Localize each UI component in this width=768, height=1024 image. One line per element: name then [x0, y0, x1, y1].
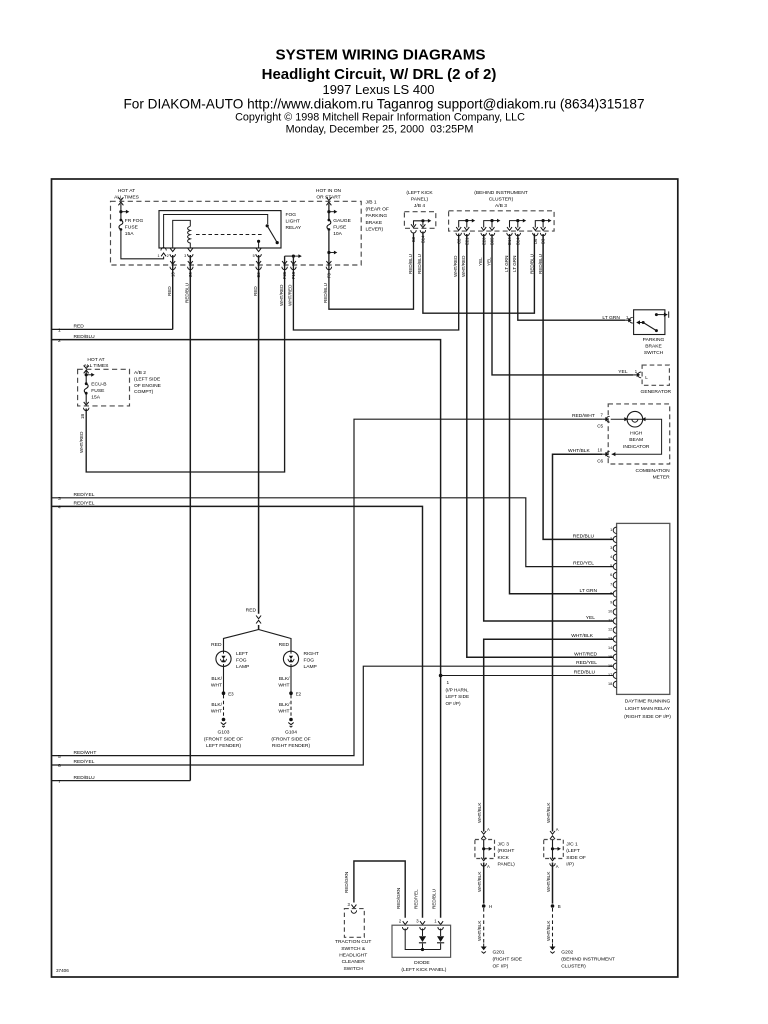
- svg-text:C6: C6: [597, 458, 603, 463]
- svg-text:BRAKE: BRAKE: [366, 220, 383, 226]
- svg-text:TRACTION CUT: TRACTION CUT: [335, 939, 371, 945]
- svg-text:(I/P HARN,: (I/P HARN,: [446, 687, 469, 692]
- connector below J/C1: [550, 858, 555, 867]
- svg-text:15: 15: [608, 655, 612, 659]
- label ECU-B FUSE 15A: [91, 382, 106, 401]
- label RIGHT FOG LAMP: [304, 651, 319, 670]
- svg-text:14: 14: [608, 646, 612, 650]
- wire 13 RED: relay pin2 down through J/B1: [172, 255, 174, 329]
- label HOT AT ALL TIMES: [84, 357, 109, 369]
- svg-text:YEL: YEL: [478, 257, 483, 266]
- relay pin 4 connector: [256, 248, 261, 257]
- svg-text:WHT: WHT: [211, 683, 222, 689]
- svg-text:17: 17: [608, 673, 612, 677]
- svg-text:1: 1: [434, 919, 437, 924]
- fuse ECU-B 15A symbol: [84, 382, 88, 394]
- wire pair3-right LT GRN down to parking brake switch: [518, 234, 626, 320]
- svg-text:1: 1: [610, 528, 612, 532]
- svg-text:SWITCH: SWITCH: [344, 966, 364, 972]
- ground G103: [221, 718, 226, 727]
- svg-text:WHT/BLK: WHT/BLK: [477, 920, 482, 941]
- connector at J/B1 bottom edge (F35): [282, 261, 287, 270]
- connector into generator: [633, 374, 637, 376]
- DRL relay pin 17: [613, 672, 616, 678]
- svg-text:RED: RED: [246, 608, 257, 614]
- svg-text:J/C 1: J/C 1: [566, 842, 578, 848]
- inline connector on RED wire: [256, 616, 261, 624]
- pair1 connectors: [456, 227, 461, 236]
- svg-text:OF I/P): OF I/P): [493, 963, 509, 969]
- svg-text:RED: RED: [253, 286, 258, 296]
- wire pair2-left YEL down to DRL pin 11: [484, 234, 614, 621]
- label DIODE (LEFT KICK PANEL): [401, 960, 446, 973]
- svg-text:FOG: FOG: [236, 657, 247, 663]
- label (BEHIND INSTRUMENT CLUSTER) A/B 3: [474, 190, 528, 209]
- relay switch arm: [267, 226, 277, 243]
- svg-text:9: 9: [610, 601, 612, 605]
- label (I/P HARN, LEFT SIDE OF I/P): [446, 680, 470, 706]
- wire WHT/BLK below J/C3: [483, 863, 485, 904]
- svg-text:(LEFT KICK: (LEFT KICK: [406, 190, 433, 196]
- svg-text:RIGHT FENDER): RIGHT FENDER): [272, 743, 311, 749]
- svg-text:RED/YEL: RED/YEL: [576, 660, 597, 666]
- svg-text:PARKING: PARKING: [366, 213, 388, 219]
- svg-text:(FRONT SIDE OF: (FRONT SIDE OF: [204, 736, 243, 742]
- svg-text:WHT: WHT: [211, 709, 222, 715]
- svg-text:1: 1: [447, 680, 450, 685]
- dashed WHT/BLK to G201: [483, 908, 485, 944]
- svg-text:4: 4: [610, 555, 612, 559]
- svg-text:Monday, December 25, 2000 03:: Monday, December 25, 2000 03:25PM: [286, 124, 474, 136]
- svg-text:RED/BLU: RED/BLU: [538, 254, 543, 274]
- svg-text:8: 8: [610, 591, 612, 595]
- label HOT IN ON OR START: [316, 188, 342, 200]
- svg-text:2: 2: [610, 537, 612, 541]
- wire B2 RED: relay pin4 (contact) down to fog lamps: [258, 255, 260, 630]
- svg-text:RED: RED: [74, 324, 85, 330]
- svg-text:RED: RED: [167, 286, 172, 296]
- svg-text:7: 7: [601, 412, 604, 417]
- DRL relay pin 13: [613, 636, 616, 642]
- svg-text:2: 2: [399, 919, 402, 924]
- svg-text:(REAR OF: (REAR OF: [366, 206, 389, 212]
- svg-text:7: 7: [58, 779, 61, 785]
- svg-text:FUSE: FUSE: [333, 225, 347, 231]
- dashed BLK/WHT to ground right: [290, 695, 292, 717]
- svg-text:F3: F3: [327, 272, 332, 278]
- svg-text:RED/GRN: RED/GRN: [344, 872, 349, 893]
- svg-text:5: 5: [253, 254, 255, 258]
- wire pair3-left LT GRN down to DRL pin 8: [510, 234, 614, 594]
- svg-text:LT GRN: LT GRN: [580, 588, 598, 594]
- svg-text:RED/BLU: RED/BLU: [74, 334, 96, 340]
- row 6 RED/YEL to DRL pin 16: [52, 666, 614, 765]
- svg-text:LAMP: LAMP: [236, 664, 249, 670]
- relay internal: pin1 to switch common: [164, 215, 268, 249]
- row 1 RED: [52, 328, 173, 330]
- DRL relay pin 11: [613, 618, 616, 624]
- svg-text:WHT/BLK: WHT/BLK: [571, 633, 593, 639]
- pair4 connectors: [533, 227, 538, 236]
- connector below J/C3: [481, 858, 486, 867]
- svg-text:FOG: FOG: [286, 212, 297, 218]
- row 4 RED/YEL to diode: [52, 506, 423, 917]
- connector C5: [602, 418, 605, 420]
- svg-text:CLEANER: CLEANER: [342, 959, 366, 965]
- svg-text:10: 10: [598, 447, 603, 452]
- pair2 connectors: [481, 227, 486, 236]
- DRL relay pin 3: [613, 545, 616, 551]
- svg-text:RED/YEL: RED/YEL: [413, 889, 418, 909]
- label HOT AT ALL TIMES (left): [114, 188, 139, 200]
- dashed WHT/BLK to G202: [552, 908, 554, 944]
- svg-text:BLK/: BLK/: [279, 702, 290, 708]
- fuse GAUGE 10A symbol: [327, 219, 331, 231]
- svg-text:LT GRN: LT GRN: [504, 256, 509, 272]
- svg-text:(BEHIND INSTRUMENT: (BEHIND INSTRUMENT: [474, 190, 528, 196]
- label (LEFT KICK PANEL) J/B 4: [406, 190, 433, 209]
- wire F35 WHT/RED: down to ECU-B fuse loop: [86, 256, 284, 472]
- label FR FOG FUSE 15A: [125, 218, 144, 237]
- svg-text:F15: F15: [291, 271, 296, 279]
- DRL relay pin 2: [613, 536, 616, 542]
- svg-text:G103: G103: [218, 729, 230, 735]
- DRL relay pin 18: [613, 681, 616, 687]
- svg-text:WHT/BLK: WHT/BLK: [477, 802, 482, 823]
- J/B3 pair3 splice bar: [510, 221, 518, 228]
- diode symbol right: [437, 936, 444, 942]
- TRACTION CUT SWITCH dashed box: [344, 909, 364, 938]
- svg-text:RED: RED: [279, 642, 290, 648]
- svg-text:RED/BLU: RED/BLU: [530, 254, 535, 274]
- svg-text:RED/BLU: RED/BLU: [573, 533, 595, 539]
- relay actuation dashed line: [196, 234, 262, 236]
- J/B3 pair4 splice bar: [535, 221, 543, 228]
- svg-text:3: 3: [348, 902, 351, 907]
- pair3 connectors: [507, 227, 512, 236]
- svg-text:COMPT): COMPT): [134, 389, 154, 395]
- row 2 RED/BLU: [52, 340, 441, 918]
- svg-text:26: 26: [188, 272, 193, 277]
- svg-text:GENERATOR: GENERATOR: [641, 389, 672, 395]
- svg-text:WHT/RED: WHT/RED: [288, 284, 293, 306]
- svg-text:RED/BLU: RED/BLU: [323, 283, 328, 303]
- svg-text:12: 12: [608, 628, 612, 632]
- svg-text:LT GRN: LT GRN: [602, 315, 620, 321]
- svg-text:BRAKE: BRAKE: [645, 344, 662, 350]
- ECU-B fuse wire inside A/B2: [85, 371, 87, 404]
- svg-text:RED/BLU: RED/BLU: [408, 254, 413, 274]
- DRL relay pin 16: [613, 663, 616, 669]
- svg-text:DIODE: DIODE: [414, 960, 430, 966]
- svg-text:RED/YEL: RED/YEL: [74, 492, 95, 498]
- svg-text:ALL TIMES: ALL TIMES: [114, 194, 139, 200]
- wire row2 branch to DRL pin 17: [441, 675, 614, 677]
- svg-text:FUSE: FUSE: [91, 388, 105, 394]
- svg-text:(LEFT: (LEFT: [566, 848, 580, 854]
- splice E3: [222, 691, 226, 695]
- svg-text:CLUSTER): CLUSTER): [489, 196, 514, 202]
- label A/B 2 (LEFT SIDE OF ENGINE COMPT): [134, 370, 162, 395]
- svg-text:3: 3: [610, 546, 612, 550]
- DRL relay pin 8: [613, 591, 616, 597]
- svg-text:H: H: [489, 904, 492, 909]
- splice dot I/P HARN on row2 wire: [439, 674, 443, 678]
- svg-text:J/B 1: J/B 1: [366, 200, 377, 206]
- svg-text:WHT/RED: WHT/RED: [461, 255, 466, 277]
- svg-text:B8: B8: [411, 236, 416, 242]
- svg-text:WHT: WHT: [278, 709, 289, 715]
- svg-text:PANEL): PANEL): [411, 196, 429, 202]
- DRL relay pin 4: [613, 554, 616, 560]
- diode box connectors: [403, 921, 408, 930]
- svg-text:YEL: YEL: [486, 257, 491, 266]
- svg-text:WHT/BLK: WHT/BLK: [477, 871, 482, 892]
- svg-text:4: 4: [58, 505, 61, 511]
- svg-text:(LEFT KICK PANEL): (LEFT KICK PANEL): [401, 967, 446, 973]
- svg-text:OF ENGINE: OF ENGINE: [134, 383, 162, 389]
- svg-text:RELAY: RELAY: [286, 225, 302, 231]
- J/C3 internal wire + splice: [483, 840, 485, 858]
- DRL relay pin 7: [613, 582, 616, 588]
- DIODE box: [392, 925, 451, 957]
- label J/C 3 (RIGHT KICK PANEL): [498, 842, 516, 868]
- svg-text:BLK/: BLK/: [211, 702, 222, 708]
- connector at J/B1 bottom edge (13): [170, 261, 175, 270]
- GAUGE fuse 10A feed wire: [329, 204, 414, 310]
- svg-text:RED/BLU: RED/BLU: [574, 670, 596, 676]
- splice E2: [289, 691, 293, 695]
- svg-text:5: 5: [58, 754, 61, 760]
- relay pin4 stub + dot: [258, 242, 260, 248]
- svg-text:E2: E2: [296, 691, 302, 696]
- splice H: [482, 904, 486, 908]
- svg-text:16: 16: [608, 664, 612, 668]
- svg-text:A: A: [556, 864, 559, 869]
- svg-text:C5: C5: [597, 423, 603, 428]
- relay pin 1 connector (from FR FOG fuse): [161, 248, 166, 257]
- svg-text:RED/YEL: RED/YEL: [74, 501, 95, 507]
- combination meter dashed box: [608, 404, 670, 464]
- splice bar WHT/RED pair inside J/B1: [285, 255, 294, 257]
- svg-text:15A: 15A: [91, 395, 100, 401]
- J/C 1 dashed box: [544, 840, 564, 859]
- svg-text:BEAM: BEAM: [629, 437, 643, 443]
- ground G202: [550, 944, 556, 954]
- svg-text:HOT AT: HOT AT: [87, 357, 104, 363]
- label GAUGE FUSE 10A: [333, 218, 351, 237]
- svg-text:A/B 2: A/B 2: [134, 370, 146, 376]
- DRL relay pin 6: [613, 572, 616, 578]
- connector J/B4 bottom edge right: [420, 224, 425, 233]
- svg-text:D6: D6: [533, 238, 538, 244]
- DRL relay pin 15: [613, 654, 616, 660]
- svg-text:1: 1: [58, 328, 61, 334]
- svg-text:15A: 15A: [125, 231, 134, 237]
- svg-text:1997 Lexus LS 400: 1997 Lexus LS 400: [322, 82, 434, 97]
- svg-text:(RIGHT SIDE OF I/P): (RIGHT SIDE OF I/P): [624, 714, 671, 720]
- connector at J/B1 bottom edge (F15): [291, 261, 296, 270]
- ground G201: [481, 944, 487, 954]
- wire WHT/BLK DRL pin13 to left ground column: [484, 639, 614, 831]
- svg-text:F35: F35: [282, 271, 287, 279]
- svg-text:LEFT SIDE: LEFT SIDE: [446, 694, 470, 699]
- svg-text:(FRONT SIDE OF: (FRONT SIDE OF: [271, 736, 310, 742]
- svg-text:ECU-B: ECU-B: [91, 382, 106, 388]
- svg-text:KICK: KICK: [498, 855, 510, 861]
- connector J/B4 bottom edge left: [411, 224, 416, 233]
- svg-text:LT GRN: LT GRN: [512, 256, 517, 272]
- FR FOG fuse 15A feed wire: [121, 204, 164, 259]
- svg-text:BLK/: BLK/: [211, 676, 222, 682]
- svg-text:A: A: [556, 827, 559, 832]
- splice dot + arrow: [85, 373, 95, 377]
- J/C1 internal wire + splice: [552, 840, 554, 858]
- svg-text:B2: B2: [256, 272, 261, 278]
- svg-text:HIGH: HIGH: [630, 431, 643, 437]
- svg-text:SWITCH &: SWITCH &: [341, 946, 366, 952]
- relay switch arm end dot: [276, 241, 279, 244]
- svg-text:WHT/RED: WHT/RED: [574, 651, 597, 657]
- svg-text:1B: 1B: [80, 414, 85, 419]
- svg-text:6: 6: [58, 763, 61, 769]
- svg-text:LIGHT MAIN RELAY: LIGHT MAIN RELAY: [625, 706, 671, 712]
- svg-text:CLUSTER): CLUSTER): [561, 963, 586, 969]
- svg-text:LEFT: LEFT: [236, 651, 248, 657]
- svg-text:LEVER): LEVER): [366, 227, 384, 233]
- label FOG LIGHT RELAY: [286, 212, 302, 231]
- svg-text:RED/BLU: RED/BLU: [431, 889, 436, 909]
- DRL relay pin 14: [613, 645, 616, 651]
- svg-text:INDICATOR: INDICATOR: [623, 444, 650, 450]
- svg-text:(BEHIND INSTRUMENT: (BEHIND INSTRUMENT: [561, 956, 615, 962]
- svg-text:LEFT FENDER): LEFT FENDER): [206, 743, 241, 749]
- wire pair1-right WHT/RED down to DRL pin 15: [467, 234, 613, 657]
- wire WHT/BLK below J/C1: [552, 863, 554, 904]
- svg-text:SIDE OF: SIDE OF: [566, 855, 586, 861]
- J/C 3 dashed box: [475, 840, 495, 859]
- label PARKING BRAKE SWITCH: [643, 337, 665, 356]
- junction block J/B4 dashed box: [404, 212, 435, 229]
- svg-text:6: 6: [610, 573, 612, 577]
- svg-text:A: A: [487, 864, 490, 869]
- svg-text:BLK/: BLK/: [279, 676, 290, 682]
- svg-text:RED/BLU: RED/BLU: [417, 254, 422, 274]
- svg-text:SYSTEM WIRING DIAGRAMS: SYSTEM WIRING DIAGRAMS: [275, 47, 485, 64]
- J/B3 pair1 splice bar: [459, 221, 467, 228]
- svg-text:B: B: [558, 904, 561, 909]
- svg-text:HOT AT: HOT AT: [118, 188, 135, 194]
- svg-text:10: 10: [608, 610, 612, 614]
- parking brake switch box: [634, 310, 665, 335]
- splice B: [551, 904, 555, 908]
- diagram frame: [52, 179, 678, 977]
- svg-text:1: 1: [158, 254, 160, 258]
- svg-text:WHT/RED: WHT/RED: [79, 431, 84, 453]
- svg-text:LAMP: LAMP: [304, 664, 317, 670]
- svg-text:FR FOG: FR FOG: [125, 218, 144, 224]
- wire pair2-right YEL down to generator: [492, 234, 633, 375]
- svg-text:3: 3: [184, 254, 186, 258]
- svg-text:L: L: [645, 375, 648, 380]
- splice dot + arrow on FR FOG feed: [119, 210, 129, 214]
- switch arm diagonal: [643, 323, 656, 331]
- row 7 RED/BLU from relay coil: [52, 780, 191, 782]
- wire 26 RED/BLU: relay pin3 (coil) down to row 7: [189, 255, 191, 781]
- row 3 RED/YEL to DRL pin 5: [52, 498, 614, 567]
- svg-text:18: 18: [608, 682, 612, 686]
- label TRACTION CUT SWITCH & HEADLIGHT CLEANER SWITCH: [335, 939, 371, 972]
- svg-text:J/C 3: J/C 3: [498, 842, 510, 848]
- svg-text:SWITCH: SWITCH: [644, 350, 664, 356]
- svg-text:YEL: YEL: [586, 615, 596, 621]
- svg-text:DAYTIME RUNNING: DAYTIME RUNNING: [625, 699, 671, 705]
- relay pin 3 connector: [188, 248, 193, 257]
- splice dot + arrow above gauge fuse: [327, 210, 337, 214]
- svg-text:A: A: [487, 827, 490, 832]
- relay switch contact dot: [266, 224, 269, 227]
- RIGHT FOG LAMP bulb: [283, 651, 298, 666]
- generator dashed box: [642, 365, 669, 385]
- svg-text:G104: G104: [285, 729, 297, 735]
- svg-text:GAUGE: GAUGE: [333, 218, 351, 224]
- label DAYTIME RUNNING LIGHT MAIN RELAY (RIGHT SIDE OF I/P): [624, 699, 671, 720]
- DRL relay pin 12: [613, 627, 616, 633]
- diode symbol left: [419, 936, 426, 942]
- svg-text:RED/BLU: RED/BLU: [74, 775, 96, 781]
- high beam indicator bulb: [627, 411, 643, 427]
- svg-text:HEADLIGHT: HEADLIGHT: [339, 953, 367, 959]
- wire F15 WHT/RED: down then right to J/B3 pair1: [293, 234, 458, 331]
- junction block J/B1 dashed box: [111, 201, 362, 265]
- wire BLK/WHT right lamp to splice E2: [290, 666, 292, 691]
- svg-text:WHT/RED: WHT/RED: [279, 284, 284, 306]
- relay internal: pin2 to coil top: [173, 220, 191, 248]
- label COMBINATION METER: [636, 468, 671, 481]
- label J/C 1 (LEFT SIDE OF I/P): [566, 842, 586, 868]
- svg-text:RED/WHT: RED/WHT: [572, 413, 595, 419]
- connector at J/B1 bottom edge (26): [188, 261, 193, 270]
- svg-text:11: 11: [608, 619, 612, 623]
- svg-text:FUSE: FUSE: [125, 225, 139, 231]
- svg-text:WHT: WHT: [278, 683, 289, 689]
- svg-text:YEL: YEL: [618, 369, 628, 375]
- relay pin 2 connector: [170, 248, 175, 257]
- svg-text:For DIAKOM-AUTO http://www.dia: For DIAKOM-AUTO http://www.diakom.ru Tag…: [123, 96, 644, 111]
- svg-text:3: 3: [58, 496, 61, 502]
- connector into traction switch box: [351, 905, 356, 914]
- switch arm arrow inside: [637, 322, 643, 324]
- ground G104: [288, 718, 293, 727]
- svg-text:WHT/BLK: WHT/BLK: [568, 448, 590, 454]
- svg-text:3: 3: [416, 919, 419, 924]
- label J/B 1 (REAR OF PARKING BRAKE LEVER): [366, 200, 389, 233]
- wire BLK/WHT left lamp to splice E3: [223, 666, 225, 691]
- label BLK/WHT: [211, 676, 223, 689]
- svg-text:RED/YEL: RED/YEL: [74, 759, 95, 765]
- svg-text:7: 7: [610, 582, 612, 586]
- junction block A/B2 dashed box: [78, 369, 130, 406]
- svg-text:E3: E3: [228, 691, 234, 696]
- svg-text:(RIGHT SIDE: (RIGHT SIDE: [493, 956, 523, 962]
- label BLK/WHT: [278, 676, 290, 689]
- label LEFT FOG LAMP: [236, 651, 249, 670]
- svg-text:Copyright © 1998 Mitchell Repa: Copyright © 1998 Mitchell Repair Informa…: [235, 112, 525, 124]
- fuse FR FOG 15A symbol: [119, 219, 123, 231]
- svg-text:(LEFT SIDE: (LEFT SIDE: [134, 376, 161, 382]
- svg-text:I/P): I/P): [566, 862, 574, 868]
- row 5 RED/WHT to high beam indicator: [52, 419, 603, 755]
